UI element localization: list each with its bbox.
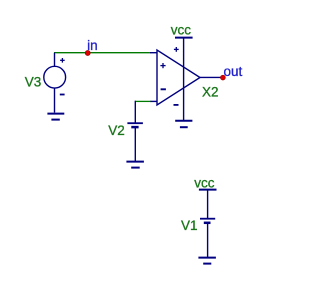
op-amp X2 bbox=[150, 38, 223, 120]
power minus label bbox=[174, 104, 179, 106]
svg-text:V2: V2 bbox=[108, 123, 125, 138]
op-amp output wire bbox=[200, 76, 223, 78]
V3 pin top bbox=[54, 53, 56, 67]
svg-text:vcc: vcc bbox=[194, 175, 215, 190]
svg-text:out: out bbox=[224, 64, 243, 79]
svg-text:V3: V3 bbox=[25, 74, 42, 89]
input plus label bbox=[160, 65, 165, 67]
pin stub minus input bbox=[150, 100, 157, 102]
pin stub plus input bbox=[150, 52, 157, 54]
vcc rail bar V1 bbox=[199, 189, 217, 191]
V1 pin top bbox=[207, 190, 209, 218]
node out (junction dot) bbox=[221, 75, 226, 80]
V3 pin bottom bbox=[54, 88, 56, 112]
battery V1 bbox=[200, 190, 215, 257]
ground under V2 bbox=[126, 162, 143, 168]
power pin line bbox=[183, 38, 185, 120]
vcc rail bar bbox=[175, 37, 193, 39]
V3 plus sign bbox=[60, 59, 65, 61]
ground under op-amp bbox=[175, 121, 192, 127]
svg-text:V1: V1 bbox=[181, 218, 198, 233]
ground under V3 bbox=[47, 114, 64, 120]
V2 pin bottom bbox=[134, 128, 136, 161]
ground under V1 bbox=[198, 258, 216, 264]
op-amp triangle bbox=[157, 50, 200, 105]
svg-text:vcc: vcc bbox=[171, 22, 192, 37]
node in (junction dot) bbox=[85, 51, 90, 56]
wire vertical to V2 bbox=[134, 101, 136, 123]
voltage source V3 bbox=[44, 53, 66, 113]
V1 pin bottom bbox=[207, 224, 209, 257]
V3 circle bbox=[44, 66, 66, 88]
V3 minus sign bbox=[60, 94, 65, 96]
input minus label bbox=[161, 88, 166, 90]
power plus label bbox=[174, 48, 179, 50]
wire net to inverting input bbox=[135, 100, 150, 102]
svg-text:in: in bbox=[87, 38, 98, 53]
wire net in (horizontal) bbox=[54, 52, 151, 54]
svg-text:X2: X2 bbox=[202, 85, 219, 100]
battery V2 bbox=[127, 123, 142, 161]
